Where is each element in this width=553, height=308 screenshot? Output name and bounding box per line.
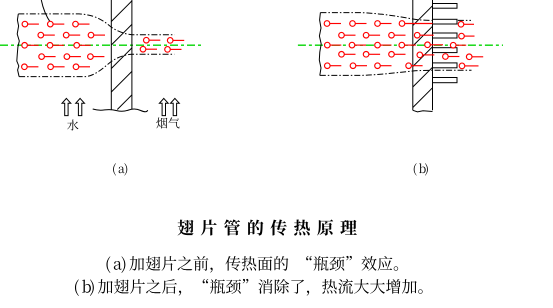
caption line 1 (106, 256, 398, 273)
heat particle a-r1-c3 (73, 21, 90, 27)
heat particle b-r5-c2 (350, 63, 367, 69)
heat particle b-onwall-2 (425, 42, 443, 48)
heat particle a-r1-c1 (22, 21, 39, 27)
fin 4 (433, 48, 458, 53)
heat particle a-band-2 (167, 38, 184, 44)
green center axis line of diagram (b) (298, 44, 503, 46)
fin 1 (433, 4, 458, 9)
funnel outline (a): left jagged edge (17, 14, 20, 77)
water flow arrow 2 (76, 98, 85, 115)
heat particle a-r4-c3 (88, 54, 105, 60)
label water (67, 119, 78, 130)
ground break line under wall (a) (93, 109, 148, 112)
heat particle b-onwall-3 (417, 52, 434, 58)
heat particle a-r2-c3 (88, 32, 105, 38)
heat particle b-finside-4 (443, 54, 460, 60)
pointer line to heat particle (41, 0, 50, 23)
heat particle b-r5-c1 (325, 63, 342, 69)
heat particle b-r4-c3 (389, 52, 406, 58)
heat particle b-r1-c3 (375, 21, 392, 27)
heat particle b-r2-c2 (363, 32, 380, 38)
wall (b) hatching (413, 6, 433, 108)
heat particle b-finside-3 (450, 42, 466, 48)
heat particle a-r3-c1 (22, 43, 39, 49)
fin 6 (433, 78, 458, 83)
heat particle b-r5-c4 (406, 63, 423, 69)
heat particle a-band-3 (140, 46, 157, 52)
label (a) (113, 163, 127, 175)
green center axis line of diagram (a) (0, 44, 202, 46)
heat particle a-r5-c1 (22, 64, 39, 70)
heat particle b-r2-c1 (339, 32, 356, 38)
heat transfer wall (a): right face (131, 0, 133, 110)
finned wall (b): left face (412, 0, 414, 110)
funnel outline (b): bottom edge (320, 70, 472, 75)
heat particle b-r4-c2 (363, 52, 380, 58)
funnel outline (a): top edge narrowing to bottleneck (18, 14, 174, 35)
heat particle a-r2-c1 (38, 32, 55, 38)
funnel outline (b): top edge (320, 13, 471, 21)
heat particle b-r1-c1 (324, 21, 341, 27)
heat particle a-r4-c2 (64, 54, 81, 60)
heat particle b-r1-c4 crossing wall (399, 21, 432, 27)
heat particle b-r3-c3 (375, 42, 392, 48)
heat particle b-r3-c1 (325, 42, 342, 48)
caption line 2 (75, 279, 423, 296)
water flow arrow 1 (62, 98, 71, 115)
heat particle a-r3-c2 (47, 43, 64, 49)
heat particle b-r1-c2 (350, 21, 367, 27)
heat particle a-r5-c3 (73, 64, 90, 70)
heat particle b-r3-c2 (349, 42, 366, 48)
heat particle b-finside-2 (459, 33, 475, 39)
fin 5 (433, 63, 458, 68)
heat particle a-r3-c3 (74, 43, 91, 49)
wall (b) bottom broken edge (413, 110, 433, 112)
heat particle b-finside-6 (459, 63, 478, 69)
heat particle b-finside-1 (458, 22, 474, 28)
label flue gas (156, 117, 179, 128)
heat particle a-r1-c2 (48, 21, 65, 27)
title: heat transfer principle of finned tube (178, 219, 357, 235)
heat particle b-r4-c1 (339, 52, 356, 58)
heat particle b-finside-5 (466, 54, 483, 60)
heat particle a-r4-c1 (39, 54, 56, 60)
heat transfer wall (a): left face (110, 0, 112, 110)
heat particle b-r3-c4 (399, 42, 416, 48)
heat particle a-r5-c2 (48, 64, 65, 70)
funnel outline (b): left jagged edge (319, 13, 321, 76)
wall (a) hatching (111, 1, 132, 110)
heat particle b-r2-c3 (389, 32, 406, 38)
flue gas arrow 2 (171, 98, 180, 115)
fin 2 (433, 19, 458, 24)
flue gas arrow 1 (159, 98, 168, 115)
fin 3 (433, 33, 458, 38)
finned wall (b): right face (432, 0, 434, 110)
heat particle b-onwall-1 (414, 32, 433, 38)
label (b) (414, 163, 428, 175)
heat particle a-r2-c2 (63, 32, 80, 38)
heat particle a-band-4 (165, 47, 182, 53)
heat particle a-band-1 (144, 37, 161, 43)
funnel outline (a): bottom edge narrowing to bottleneck (19, 54, 174, 76)
heat particle b-r5-c3 (375, 63, 392, 69)
